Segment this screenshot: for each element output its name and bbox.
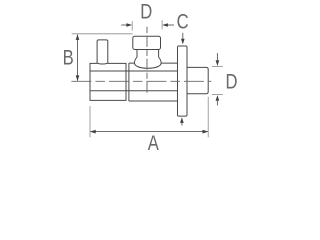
bonnet neck right — [158, 50, 160, 58]
svg-text:D: D — [225, 70, 237, 93]
dim D right arrow up — [216, 101, 218, 106]
body bore bottom line — [90, 90, 178, 92]
inlet stub — [97, 40, 108, 64]
body middle block — [129, 63, 178, 101]
dim D tick left ext — [131, 21, 133, 30]
dim C arrow pointing left — [168, 24, 175, 26]
dim C down arrow — [182, 33, 184, 40]
dim D right tick top ext — [212, 66, 223, 68]
bonnet dome — [134, 57, 161, 68]
handwheel bar — [178, 46, 188, 116]
dim D right tick bottom ext — [212, 94, 223, 96]
joint line right — [128, 63, 130, 101]
valve body left block — [90, 63, 126, 100]
body bore top line — [90, 70, 178, 72]
bonnet cap — [133, 36, 161, 49]
svg-text:B: B — [63, 46, 74, 69]
inlet stub fillet — [97, 62, 108, 65]
dim D tick right ext — [161, 20, 163, 29]
dim B arrow up — [76, 34, 80, 40]
dim D arrow pointing right — [121, 24, 127, 26]
vertical centerline — [146, 27, 148, 95]
svg-text:D: D — [140, 0, 152, 23]
svg-text:C: C — [177, 10, 189, 33]
dim A extension right line — [207, 97, 209, 138]
dim A extension left line — [89, 106, 91, 137]
horizontal centerline — [71, 80, 211, 82]
dim C up arrow — [181, 122, 183, 126]
svg-text:A: A — [148, 131, 159, 154]
outlet stub — [187, 67, 208, 93]
dim A line — [91, 131, 208, 133]
dim B line — [77, 35, 79, 81]
bonnet neck left — [136, 50, 138, 58]
dim A arrow left — [90, 130, 96, 134]
dim A arrow right — [203, 130, 209, 134]
dim D right arrow down — [216, 53, 218, 60]
dim B arrow down — [76, 75, 80, 81]
dim B extension top line — [72, 33, 133, 35]
